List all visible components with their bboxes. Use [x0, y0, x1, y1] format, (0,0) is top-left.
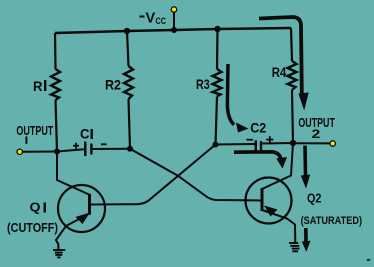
collector lead [57, 152, 89, 195]
current arrow into R4 (top right curve) [259, 17, 309, 111]
current arrow into Q2 (below output 2 wire) [301, 146, 310, 189]
svg-text:C: C [80, 127, 90, 142]
emitter arrow [76, 213, 91, 225]
node R3 junction [214, 26, 220, 32]
wire junction to C1 [57, 149, 84, 151]
current arrow toward C2 (down R3 side) [227, 64, 248, 133]
node R2 junction [124, 28, 130, 34]
resistor R3 [213, 69, 222, 97]
wire R3 node to C2 [216, 143, 255, 146]
wire output1 to junction [23, 151, 57, 153]
transistor Q2 [246, 143, 296, 243]
wire C1 to R2 node [93, 148, 130, 150]
emitter lead [262, 210, 295, 243]
wire R4 bottom to output 2 node [292, 90, 293, 143]
transistor Q1 [56, 152, 105, 251]
wire R2 bottom to node [129, 99, 131, 149]
wire R3 branch top [216, 29, 219, 69]
node C1/R2 junction [127, 146, 133, 152]
emitter arrow [264, 206, 278, 217]
wire R1 bottom to output node [56, 100, 58, 152]
label R1 [33, 78, 46, 94]
svg-text:Q2: Q2 [307, 190, 321, 205]
capacitor C2 [247, 136, 274, 151]
svg-text:OUTPUT: OUTPUT [16, 123, 53, 138]
node C2/R3 junction [213, 142, 219, 148]
svg-text:V: V [146, 11, 156, 27]
svg-text:CC: CC [156, 16, 167, 27]
label -Vcc [140, 11, 167, 27]
wire R3 bottom to node [216, 97, 218, 145]
ground Q2 [289, 243, 300, 251]
resistor R2 [124, 66, 133, 99]
svg-text:2: 2 [312, 127, 321, 141]
emitter lead [56, 214, 90, 251]
resistor R4 [288, 61, 297, 90]
terminal -Vcc [171, 7, 176, 12]
terminal output 2 [330, 141, 335, 146]
svg-text:(SATURATED): (SATURATED) [301, 215, 363, 227]
svg-text:R3: R3 [196, 76, 210, 92]
label OUTPUT 1 [16, 123, 53, 144]
node Vcc tap [173, 12, 175, 30]
label OUTPUT 2 [298, 116, 335, 141]
current arrow to ground (bottom right) [302, 228, 311, 252]
node output1 junction [54, 149, 60, 155]
wire R2 branch top [127, 31, 129, 66]
wire R4 branch top [291, 28, 292, 61]
collector lead [262, 143, 293, 189]
svg-text:R4: R4 [272, 65, 287, 80]
node output2 junction [290, 140, 296, 146]
wire R1 branch top [54, 33, 57, 69]
wire top supply rail [55, 28, 291, 33]
label Q1 [30, 200, 47, 215]
capacitor C1 [73, 142, 107, 157]
scan mark [367, 259, 371, 261]
wire output2 node to terminal [293, 142, 330, 144]
svg-text:(CUTOFF): (CUTOFF) [7, 221, 58, 235]
svg-text:Q: Q [30, 200, 41, 215]
wire cross-coupling to Q1 base [90, 145, 216, 205]
wire C2 to output2 node [262, 142, 293, 145]
svg-text:R: R [33, 78, 43, 94]
resistor R1 [51, 69, 60, 100]
label C1 [80, 127, 93, 142]
terminal output 1 [17, 149, 22, 154]
current arrow below C2 into Q2 collector [234, 152, 287, 169]
wire cross-coupling to Q2 base [130, 149, 262, 201]
svg-text:C2: C2 [250, 121, 266, 136]
ground Q1 [53, 250, 65, 257]
svg-text:R2: R2 [105, 76, 121, 92]
